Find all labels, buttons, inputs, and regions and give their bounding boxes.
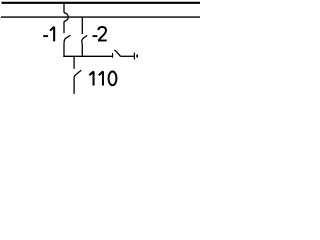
contact -2 blade [82, 35, 87, 43]
label -1 (hyphen) [43, 35, 48, 37]
wire from rail L1 down (left branch) [63, 3, 65, 13]
contact -2 bottom lead [81, 43, 83, 57]
contact -1 top lead [63, 21, 65, 33]
label 110 (digit 0) [109, 72, 117, 86]
rail L1 (top bus wire) [2, 2, 201, 4]
label 110 (digit 1) [99, 72, 103, 86]
terminal dot [136, 55, 138, 58]
contact -1 bottom lead [63, 44, 65, 57]
wire down from junction (middle leg) [73, 56, 75, 69]
rail L2 (second bus wire) [1, 16, 200, 18]
NC switch blade [115, 50, 121, 56]
contact 110 bottom lead [73, 78, 75, 94]
contact 110 blade [74, 70, 81, 78]
label -1 (digit 1) [50, 27, 54, 42]
label 110 (digit 1) [89, 72, 93, 86]
contact -1 blade [64, 35, 70, 43]
label -2 (hyphen) [93, 35, 98, 37]
label -2 (digit 2) [98, 27, 106, 41]
wire from rail L2 down (right branch) [81, 17, 83, 34]
hop crossing over rail L2 (no connection) [64, 13, 68, 21]
NC switch stop bar (T-bar) [112, 53, 114, 58]
terminal bar [133, 53, 135, 60]
junction wire (horizontal bar joining branches, continues right) [63, 55, 112, 57]
NC switch right lead wire [120, 55, 134, 57]
